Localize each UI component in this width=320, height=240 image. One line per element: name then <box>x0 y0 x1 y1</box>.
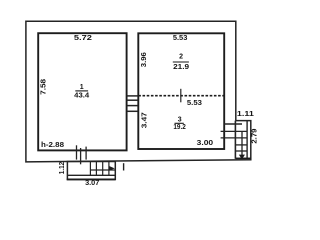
stairwell divider <box>241 131 243 157</box>
svg-text:3.96: 3.96 <box>141 52 148 67</box>
svg-text:2.79: 2.79 <box>252 128 259 143</box>
svg-text:7.58: 7.58 <box>40 79 47 95</box>
porch lower double line <box>67 178 116 180</box>
svg-text:5.72: 5.72 <box>74 35 92 42</box>
opening rungs in middle wall <box>127 96 139 111</box>
outer building contour <box>26 21 251 162</box>
porch annex box <box>67 162 115 180</box>
svg-text:3.47: 3.47 <box>141 112 148 128</box>
porch arrow right <box>109 166 115 171</box>
svg-text:1.12: 1.12 <box>59 162 66 175</box>
room 3 fraction line <box>175 122 184 124</box>
svg-text:5.53: 5.53 <box>187 100 202 107</box>
porch inner bottom line <box>67 174 115 176</box>
svg-text:21.9: 21.9 <box>173 64 189 71</box>
room 2 fraction line <box>173 61 189 63</box>
stairwell rungs <box>221 131 248 151</box>
svg-text:h-2.88: h-2.88 <box>41 142 64 149</box>
svg-text:5.53: 5.53 <box>173 35 188 42</box>
svg-text:2: 2 <box>179 53 183 60</box>
room 1 fraction line <box>75 90 88 92</box>
stairwell inner right line <box>246 121 248 159</box>
stairwell down arrow <box>239 155 245 160</box>
svg-text:1: 1 <box>80 84 84 91</box>
door ticks through bottom wall of room 1 <box>77 145 87 164</box>
svg-text:3: 3 <box>178 117 182 124</box>
stairwell top landing step <box>224 123 242 125</box>
porch steps grid <box>90 162 115 176</box>
dashed partition between rooms 2 and 3 <box>138 95 224 97</box>
svg-text:1.11: 1.11 <box>237 111 254 118</box>
room 1 walls <box>38 33 126 150</box>
small tick below bottom wall <box>123 163 125 170</box>
stairwell left wall line <box>234 121 236 159</box>
stairwell bottom thick line <box>235 157 250 159</box>
svg-text:19.2: 19.2 <box>173 124 186 131</box>
room 2-3 walls <box>138 33 224 149</box>
tick on dashed partition <box>180 89 182 103</box>
svg-text:43.4: 43.4 <box>74 93 89 100</box>
svg-text:3.07: 3.07 <box>85 180 99 187</box>
svg-text:3.00: 3.00 <box>197 140 214 147</box>
